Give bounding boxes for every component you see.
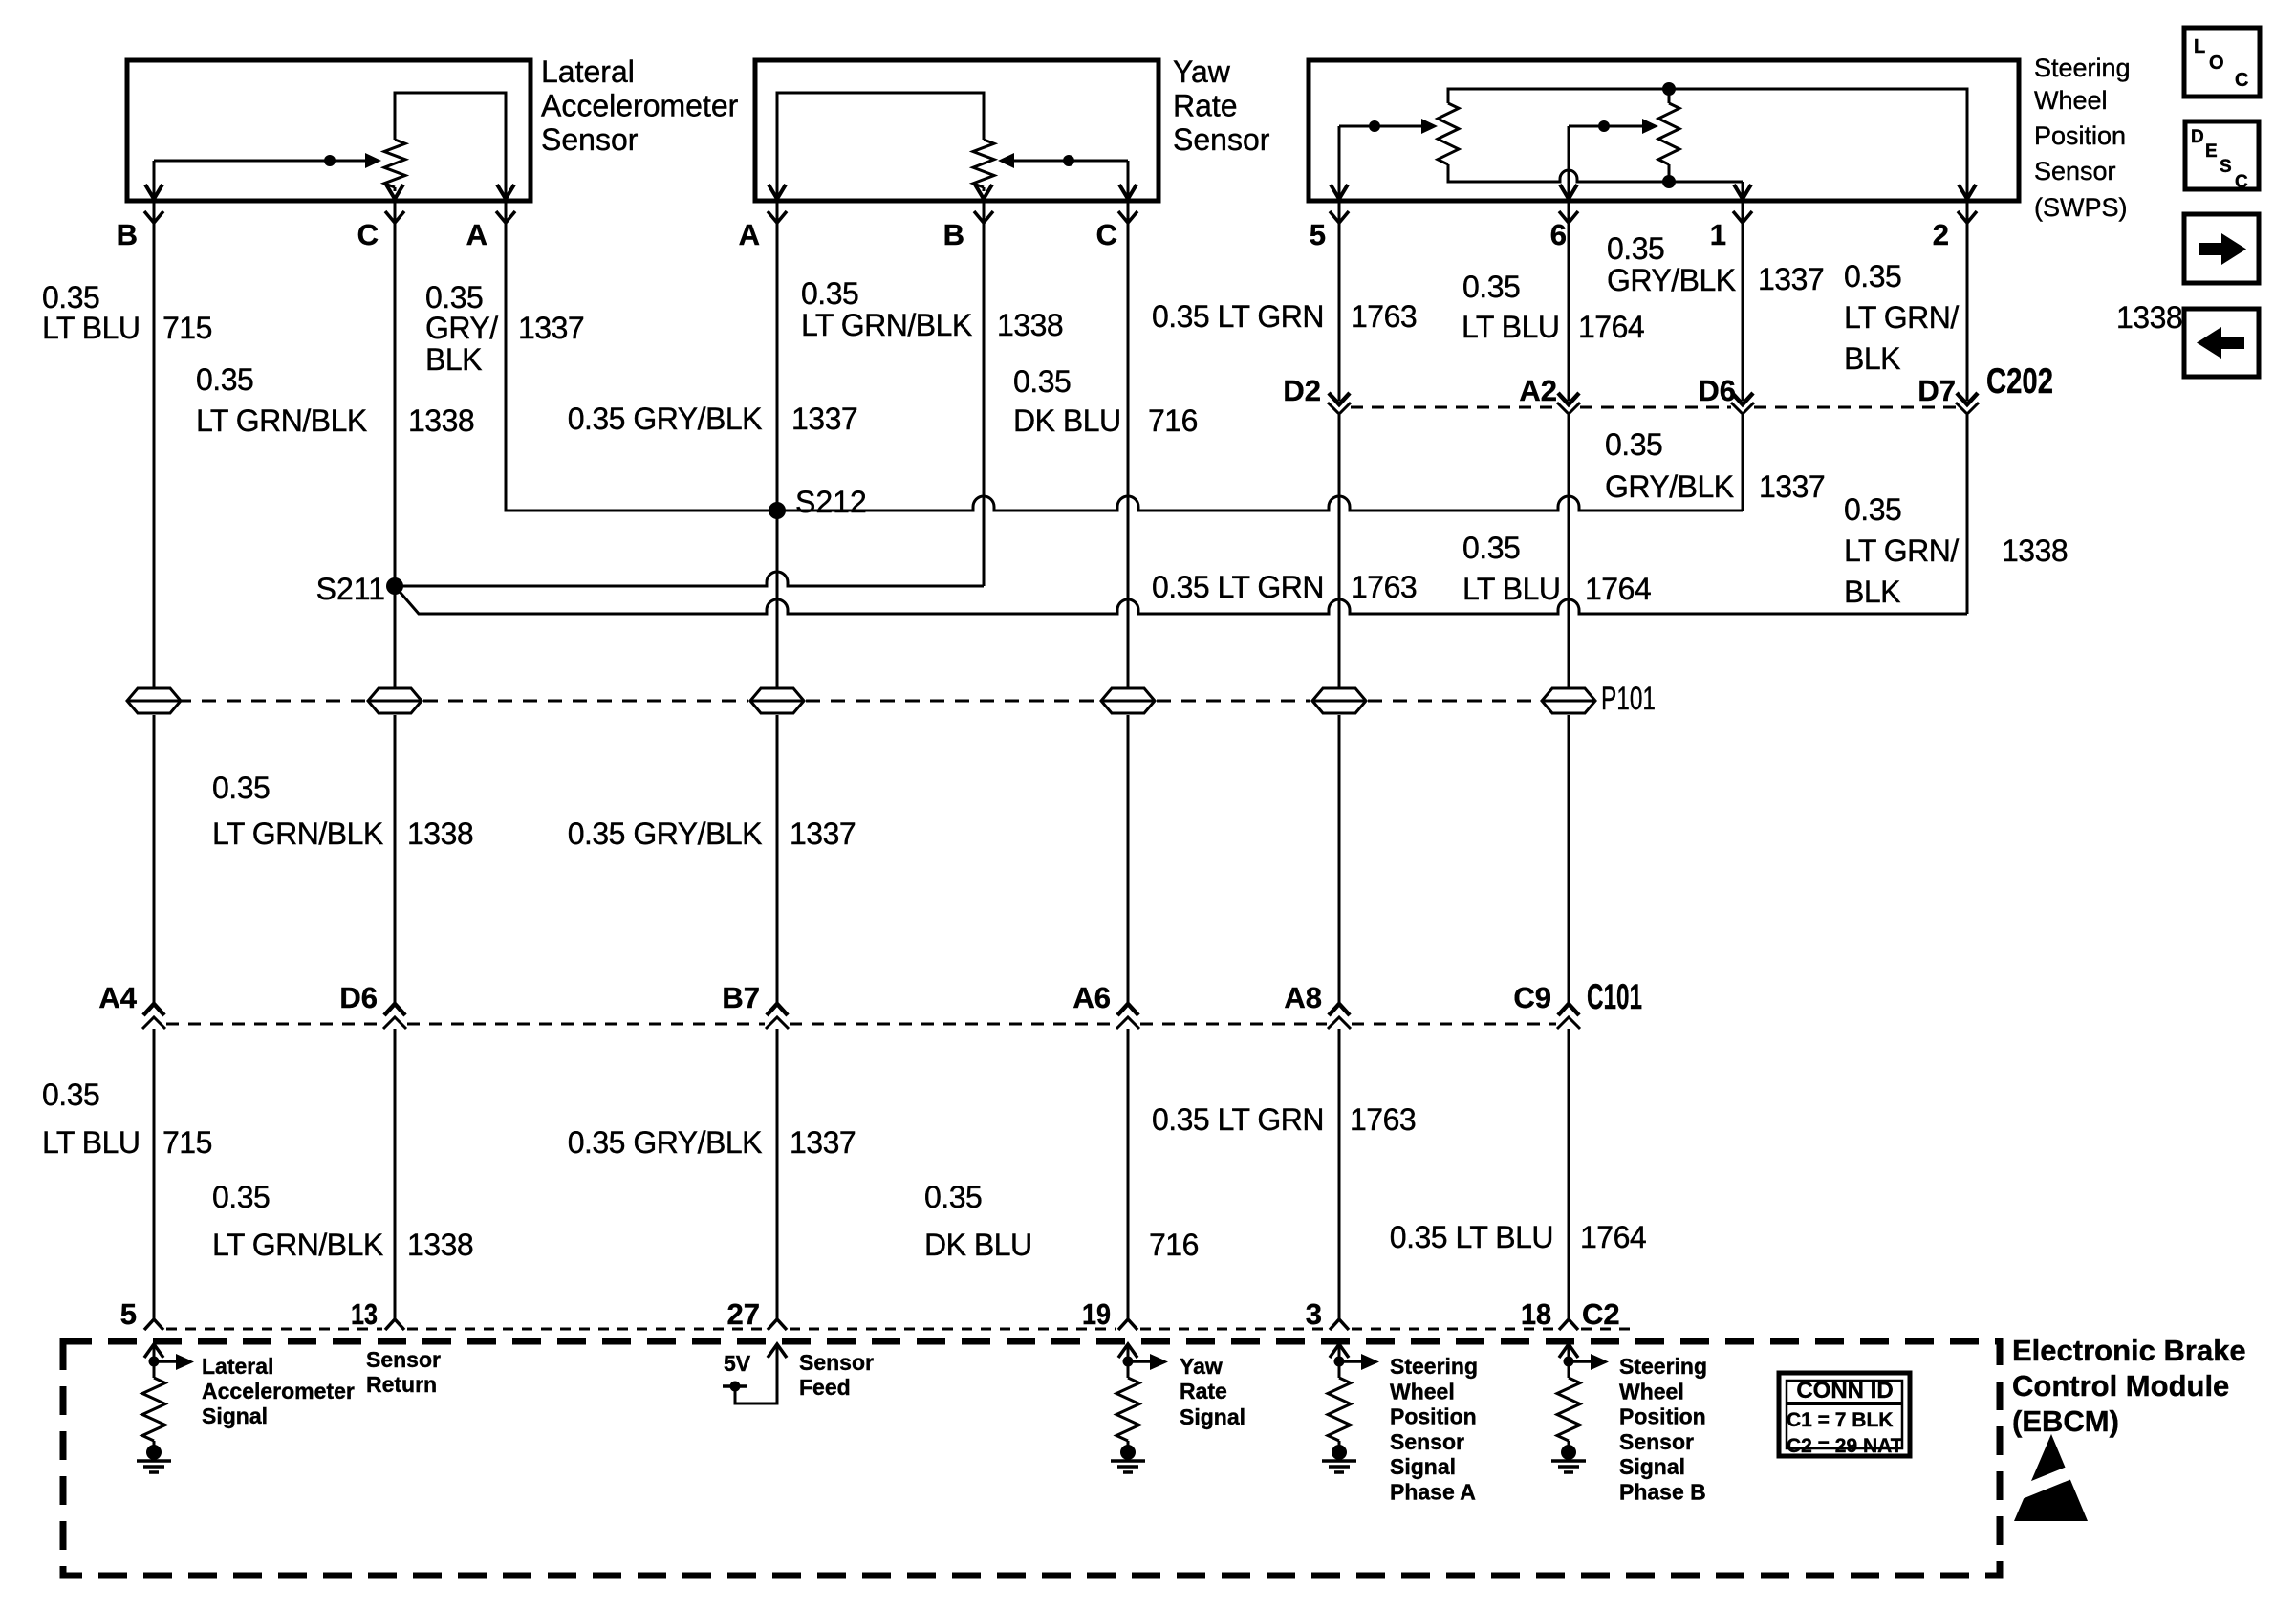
pin arrow 5 (SWPS) [1331,185,1348,199]
svg-text:Steering: Steering [1390,1354,1478,1379]
svg-text:Sensor: Sensor [1173,122,1270,157]
svg-text:LT GRN/BLK: LT GRN/BLK [801,308,972,342]
pin connector chevron A (yaw) [768,211,787,223]
svg-text:0.35: 0.35 [1607,231,1664,266]
wire label 0.35 GRY/BLK @(797,1206) [568,1125,762,1160]
svg-text:5: 5 [120,1297,137,1331]
wire label 0.35 GRY/BLK @(797,883) [568,816,762,851]
svg-text:D7: D7 [1917,374,1956,407]
svg-text:S: S [2220,157,2232,177]
EBCM input circuit: SWPS signal phase B (arrow, resistor, ground) [1551,1344,1609,1472]
label A4 (C101) [98,981,137,1014]
resistor (lateral accelerometer potentiometer element) [384,140,405,191]
svg-text:Electronic Brake: Electronic Brake [2012,1334,2246,1367]
wire label 1764 @(1653,1305) [1580,1220,1646,1254]
svg-text:1337: 1337 [518,311,584,345]
EBCM label: Lateral Accelerometer Signal [202,1354,355,1428]
EBCM label: Sensor Feed [799,1350,874,1400]
svg-text:Control Module: Control Module [2012,1369,2229,1403]
wire label 1338 @(427,451) [408,403,474,438]
wire label 1338 @(426,883) [407,816,473,851]
svg-text:BLK: BLK [425,342,482,377]
pin connector chevron C (lateral) [385,211,404,223]
P101 dashed line [127,700,1540,703]
EBCM dashed box (Electronic Brake Control Module) [63,1341,2000,1576]
svg-text:LT BLU: LT BLU [42,1125,141,1160]
label D6 (C101) [339,981,378,1014]
svg-text:0.35 GRY/BLK: 0.35 GRY/BLK [568,816,762,851]
svg-text:Phase A: Phase A [1390,1480,1476,1505]
wire (SWPS wiper B to pin 6) [1568,126,1570,196]
svg-text:S211: S211 [316,572,385,606]
grommet P101 on wire 1763 [1312,688,1366,713]
pin label 6 (SWPS) [1550,218,1567,251]
svg-text:L: L [2194,36,2205,57]
svg-text:1: 1 [1710,218,1726,251]
svg-text:DK BLU: DK BLU [1013,403,1121,438]
legend box left-arrow [2184,309,2259,377]
wire label LT GRN/ @(1929,343) [1844,300,1959,335]
wire label 1337 @(828,449) [791,402,857,436]
pin arrow A (yaw) [769,185,786,199]
svg-text:GRY/BLK: GRY/BLK [1607,263,1736,297]
svg-text:Sensor: Sensor [366,1347,441,1372]
svg-text:0.35 LT GRN: 0.35 LT GRN [1152,299,1324,334]
svg-text:A6: A6 [1072,981,1111,1014]
wire label 715 @(170,354) [162,311,212,345]
svg-text:LT BLU: LT BLU [42,311,141,345]
pin arrow 6 (SWPS) [1560,185,1577,199]
pin arrow C (lateral) [386,185,403,199]
junction dot on yaw wiper [1063,155,1074,166]
EBCM pin 13 chevron [385,1319,404,1330]
wire label BLK @(445,387) [425,342,482,377]
wire label BLK @(1929,630) [1844,575,1900,609]
wire label 0.35 @(1530,584) [1462,531,1520,565]
svg-text:716: 716 [1148,403,1198,438]
label A6 (C101) [1072,981,1111,1014]
wire label LT BLU @(44,1206) [42,1125,141,1160]
resistor (yaw rate sensor potentiometer element) [973,140,994,191]
wire label LT GRN/ @(1929,587) [1844,533,1959,568]
steering wheel position sensor box [1309,60,2019,201]
label: Yaw Rate Sensor [1173,54,1270,157]
svg-text:Wheel: Wheel [2034,86,2108,115]
svg-text:0.35 LT GRN: 0.35 LT GRN [1152,570,1324,604]
svg-text:Accelerometer: Accelerometer [541,89,739,123]
pin label C (yaw) [1096,218,1117,251]
svg-text:E: E [2205,141,2218,162]
svg-text:Feed: Feed [799,1375,851,1400]
wire label 1337 @(1839,303) [1758,262,1824,296]
lateral accelerometer sensor box [127,60,531,201]
EBCM label: Yaw Rate Signal [1180,1354,1245,1429]
svg-text:1338: 1338 [407,816,473,851]
pin label A (yaw) [739,218,760,251]
wire label 0.35 @(205,408) [196,362,253,397]
svg-text:715: 715 [162,311,212,345]
svg-text:1764: 1764 [1585,572,1651,606]
wire label 0.35 LT GRN @(1385,625) [1152,570,1324,604]
wire label 0.35 LT BLU @(1625,1305) [1390,1220,1553,1254]
svg-text:Signal: Signal [202,1403,268,1428]
svg-text:1337: 1337 [790,1125,856,1160]
wire label 1338 @(1043,351) [997,308,1063,342]
label P101 [1601,681,1656,717]
legend box DESC [2185,121,2259,192]
grommet P101 on wire 1337 [750,688,804,713]
svg-text:1337: 1337 [791,402,857,436]
yaw rate sensor box [755,60,1159,201]
junction dot on SWPS wiper A [1369,120,1380,132]
svg-text:O: O [2209,53,2224,74]
connector C101 dashed line [166,1023,1556,1026]
pin label B (lateral) [117,218,138,251]
grommet P101 on wire 715 [127,688,181,713]
EBCM connector label C2 [1582,1297,1620,1331]
svg-text:B7: B7 [722,981,760,1014]
EBCM input circuit: SWPS signal phase A (arrow, resistor, ground) [1322,1344,1379,1472]
label B7 (C101) [722,981,760,1014]
svg-text:D: D [2191,127,2204,147]
wire 1337 GRY/BLK (SWPS 1 to splice S212) [1742,203,1744,511]
label: Lateral Accelerometer Sensor [541,54,739,157]
CONN ID table text [1787,1378,1903,1457]
pin label 5 (SWPS) [1310,218,1326,251]
wire label 1763 @(1413,625) [1351,570,1417,604]
wire label LT GRN/BLK @(222,1313) [212,1228,383,1262]
svg-text:A4: A4 [98,981,137,1014]
svg-text:LT GRN/: LT GRN/ [1844,533,1959,568]
svg-text:BLK: BLK [1844,575,1900,609]
svg-text:Steering: Steering [2034,54,2131,82]
EBCM label: Steering Wheel Position Sensor Signal Phase B [1619,1354,1707,1505]
pin connector chevron B (yaw) [974,211,993,223]
svg-text:LT BLU: LT BLU [1462,572,1561,606]
svg-text:B: B [117,218,138,251]
svg-text:0.35: 0.35 [1605,427,1662,462]
svg-text:GRY/: GRY/ [425,311,498,345]
svg-text:CONN ID: CONN ID [1796,1378,1893,1403]
svg-text:Yaw: Yaw [1180,1354,1223,1379]
svg-text:0.35: 0.35 [1844,492,1901,527]
svg-text:B: B [943,218,964,251]
pin connector chevron A (lateral) [496,211,515,223]
svg-text:P101: P101 [1601,681,1656,717]
svg-text:Yaw: Yaw [1173,54,1231,89]
splice S211 branch to yaw pin B (hop over yaw A) [395,572,984,586]
EBCM input circuit: lateral accelerometer signal (arrow, resistor, ground) [137,1344,194,1472]
svg-text:2: 2 [1933,218,1949,251]
wire label 1338 @(426,1313) [407,1228,473,1262]
EBCM pin 19 chevron [1118,1319,1137,1330]
wire label LT GRN/BLK @(222,883) [212,816,383,851]
EBCM pin label 3 [1306,1297,1322,1331]
svg-text:Rate: Rate [1180,1379,1227,1403]
wire label GRY/BLK @(1679,520) [1605,469,1734,504]
label C202 [1986,361,2053,401]
wire label 1337 @(826,883) [790,816,856,851]
svg-text:1338: 1338 [2116,300,2182,335]
svg-text:C2 = 29 NAT: C2 = 29 NAT [1787,1435,1903,1457]
connector C101 terminal A4 (chevrons) [142,1004,165,1029]
svg-text:0.35: 0.35 [1013,364,1071,399]
label D6 (C202) [1698,374,1736,407]
svg-text:LT GRN/BLK: LT GRN/BLK [212,816,383,851]
svg-text:Position: Position [1390,1404,1477,1429]
svg-text:Sensor: Sensor [1390,1429,1464,1454]
svg-text:0.35: 0.35 [924,1180,982,1214]
label D7 (C202) [1917,374,1956,407]
wire label 1338 @(2214,343) [2116,300,2182,335]
wire label 0.35 @(445,322) [425,280,483,315]
svg-text:0.35: 0.35 [212,771,270,805]
pin connector chevron 2 (SWPS) [1958,211,1977,223]
label: Steering Wheel Position Sensor (SWPS) [2034,54,2131,222]
wire label LT BLU @(1530,627) [1462,572,1561,606]
svg-text:13: 13 [351,1297,378,1331]
svg-text:A: A [739,218,760,251]
grommet P101 on wire 1338 [368,688,422,713]
svg-text:Signal: Signal [1619,1454,1685,1479]
svg-text:(EBCM): (EBCM) [2012,1404,2119,1438]
wire label 1337 @(826,1206) [790,1125,856,1160]
svg-text:715: 715 [162,1125,212,1160]
wire label 0.35 @(44,1156) [42,1077,99,1112]
svg-text:Sensor: Sensor [799,1350,874,1375]
svg-text:5V: 5V [724,1351,751,1376]
wire label 0.35 @(1530,311) [1462,270,1520,304]
wire label 716 @(1202,1313) [1149,1228,1199,1262]
CONN ID table box [1779,1373,1910,1456]
svg-text:C: C [2235,70,2248,91]
wire label 715 @(170,1206) [162,1125,212,1160]
pin arrow B (lateral, into box bottom) [145,185,162,199]
wire (pin 1 drop) [1742,182,1744,196]
wire label 0.35 @(1929,544) [1844,492,1901,527]
resistor R-A (SWPS potentiometer phase A) [1438,103,1459,164]
wire (lateral A down and right to splice S212) [506,203,769,511]
legend box right-arrow [2184,214,2259,283]
wire label 1337 @(1840,520) [1759,469,1825,504]
wire label DK BLU @(1060,451) [1013,403,1121,438]
connector C202 terminal D6 (arrow + chevron) [1731,393,1754,414]
svg-text:Phase B: Phase B [1619,1480,1706,1505]
wire 1763 LT GRN (SWPS 5 to EBCM 3) [1338,203,1341,1319]
wire (SWPS bottom bus: R-A bottom to pin 1 drop, hop over pin-6 wire) [1448,164,1743,182]
wire label 0.35 @(222,835) [212,771,270,805]
wire label 1763 @(1413,342) [1351,299,1417,334]
junction dot on SWPS wiper B [1598,120,1610,132]
EBCM pin label 13 [351,1297,378,1331]
junction dot on lateral wiper [324,155,336,166]
wire label 1763 @(1412,1182) [1350,1102,1416,1137]
wire label 0.35 @(44,322) [42,280,99,315]
wire (lateral accel resistor top to pin A) [395,93,506,196]
svg-text:716: 716 [1149,1228,1199,1262]
svg-text:0.35: 0.35 [1462,270,1520,304]
label A2 (C202) [1519,374,1557,407]
svg-text:Position: Position [2034,121,2126,150]
wire 1338 LT GRN/BLK (SWPS 2 to splice S211) [1966,203,1969,614]
svg-text:1763: 1763 [1350,1102,1416,1137]
wire label LT BLU @(44,354) [42,311,141,345]
svg-text:0.35: 0.35 [196,362,253,397]
svg-text:0.35 GRY/BLK: 0.35 GRY/BLK [568,402,762,436]
wire label DK BLU @(967,1313) [924,1228,1032,1262]
svg-text:1337: 1337 [1758,262,1824,296]
EBCM connector thin dashed line [166,1328,1636,1331]
pin label A (lateral) [466,218,487,251]
svg-text:Sensor: Sensor [2034,157,2116,185]
svg-text:0.35: 0.35 [1844,259,1901,294]
svg-text:0.35: 0.35 [212,1180,270,1214]
wire (yaw resistor top to pin A) [777,93,984,196]
svg-text:19: 19 [1082,1297,1111,1331]
connector C202 terminal A2 (arrow + chevron) [1557,393,1580,414]
wire label GRY/ @(445,354) [425,311,498,345]
svg-text:0.35: 0.35 [1462,531,1520,565]
label C9 (C101) [1513,981,1551,1014]
svg-text:Return: Return [366,1372,437,1397]
wiper arrow (SWPS phase B) [1569,119,1658,134]
connector C202 dashed line [1351,406,1956,409]
connector C101 terminal C9 (chevrons) [1557,1004,1580,1029]
wire label 1338 @(2094,587) [2002,533,2068,568]
EBCM label: Sensor Return [366,1347,441,1397]
svg-text:C: C [1096,218,1117,251]
svg-text:1338: 1338 [408,403,474,438]
svg-text:0.35 GRY/BLK: 0.35 GRY/BLK [568,1125,762,1160]
connector C101 terminal A6 (chevrons) [1116,1004,1139,1029]
svg-text:Sensor: Sensor [541,122,639,157]
wire (R-B bottom stub) [1668,164,1671,182]
svg-text:Lateral: Lateral [202,1354,273,1379]
svg-text:1763: 1763 [1351,299,1417,334]
svg-text:C1 = 7 BLK: C1 = 7 BLK [1787,1409,1893,1431]
wiper arrow (yaw rate sensor) [998,153,1128,168]
wire label 0.35 @(1929,300) [1844,259,1901,294]
svg-text:C9: C9 [1513,981,1551,1014]
svg-text:D6: D6 [339,981,378,1014]
EBCM label: 5V [724,1351,751,1376]
wire label 0.35 @(1679,476) [1605,427,1662,462]
EBCM pin label 19 [1082,1297,1111,1331]
svg-text:C101: C101 [1587,977,1642,1016]
svg-text:A8: A8 [1284,981,1322,1014]
connector C101 terminal D6 (chevrons) [383,1004,406,1029]
svg-text:D2: D2 [1283,374,1321,407]
svg-text:0.35 LT BLU: 0.35 LT BLU [1390,1220,1553,1254]
wire label 0.35 @(1681,271) [1607,231,1664,266]
splice S211 branch to SWPS pin-2 wire (hops over yaw A, yaw C, SWPS 5, SWPS 6) [395,586,1967,614]
junction dot (R-B top on top bus) [1662,82,1676,96]
svg-text:0.35 LT GRN: 0.35 LT GRN [1152,1102,1324,1137]
EBCM pin 27 chevron [768,1319,787,1330]
label S212 [795,485,867,519]
svg-text:3: 3 [1306,1297,1322,1331]
EBCM pin 18 chevron [1559,1319,1578,1330]
wire 1337 GRY/BLK (yaw A to EBCM 27) [776,203,779,1319]
svg-text:Steering: Steering [1619,1354,1707,1379]
wire label LT GRN/BLK @(838,351) [801,308,972,342]
svg-text:Signal: Signal [1390,1454,1456,1479]
label S211 [316,572,385,606]
connector C101 terminal B7 (chevrons) [766,1004,789,1029]
label A8 (C101) [1284,981,1322,1014]
grommet P101 on wire 1764 [1542,688,1595,713]
EBCM pin label 18 [1521,1297,1551,1331]
wire label 0.35 @(1060,410) [1013,364,1071,399]
EBCM sensor feed circuit (up arrow + 5V tap) [723,1344,787,1403]
wire label GRY/BLK @(1681,304) [1607,263,1736,297]
wire label 716 @(1201,451) [1148,403,1198,438]
wire label 0.35 GRY/BLK @(797,449) [568,402,762,436]
svg-text:S212: S212 [795,485,867,519]
pin connector chevron 5 (SWPS) [1330,211,1349,223]
svg-text:DK BLU: DK BLU [924,1228,1032,1262]
pin arrow 1 (SWPS) [1734,185,1751,199]
svg-text:27: 27 [727,1297,760,1331]
svg-text:(SWPS): (SWPS) [2034,193,2128,222]
legend box LOC [2184,28,2260,97]
svg-text:5: 5 [1310,218,1326,251]
wire label 1764 @(1658,627) [1585,572,1651,606]
grommet P101 on wire 716 [1101,688,1155,713]
svg-text:Position: Position [1619,1404,1706,1429]
svg-text:1337: 1337 [1759,469,1825,504]
wire 1764 LT BLU (SWPS 6 to EBCM 18) [1568,203,1570,1319]
pin connector chevron C (yaw) [1118,211,1137,223]
label: Electronic Brake Control Module (EBCM) [2012,1334,2246,1438]
label D2 (C202) [1283,374,1321,407]
pin connector chevron 1 (SWPS) [1733,211,1752,223]
svg-text:GRY/BLK: GRY/BLK [1605,469,1734,504]
wire label LT BLU @(1529,353) [1462,310,1560,344]
svg-text:D6: D6 [1698,374,1736,407]
pin connector chevron 6 (SWPS) [1559,211,1578,223]
ESD sensitivity symbol [2005,1434,2095,1521]
svg-text:0.35: 0.35 [42,280,99,315]
wire 1338 LT GRN/BLK (lateral C to EBCM 13) [394,203,397,1319]
svg-text:Sensor: Sensor [1619,1429,1694,1454]
wire 716 DK BLU (yaw C to EBCM 19) [1127,203,1130,1319]
svg-text:0.35: 0.35 [801,276,858,311]
splice dot S211 [386,577,403,595]
svg-text:1764: 1764 [1578,310,1644,344]
wire label 0.35 @(222,1263) [212,1180,270,1214]
wiper arrow (SWPS phase A) [1339,119,1438,134]
svg-text:LT GRN/BLK: LT GRN/BLK [212,1228,383,1262]
svg-text:1764: 1764 [1580,1220,1646,1254]
wire label LT GRN/BLK @(205,451) [196,403,367,438]
splice S212 bus (S212 to SWPS pin-1 wire, hops over yaw B, yaw C, SWPS 5, SWPS 6) [777,496,1743,511]
wire label BLK @(1929,386) [1844,341,1900,376]
pin label C (lateral) [357,218,379,251]
pin arrow A (lateral) [497,185,514,199]
connector C202 terminal D7 (arrow + chevron) [1956,393,1979,414]
svg-text:C: C [357,218,379,251]
wiper arrow (lateral accelerometer) [154,153,381,168]
wire label 0.35 LT GRN @(1385,1182) [1152,1102,1324,1137]
splice dot S212 [769,502,786,519]
EBCM pin 5 chevron [144,1319,163,1330]
svg-text:1338: 1338 [407,1228,473,1262]
EBCM pin label 5 [120,1297,137,1331]
EBCM pin 3 chevron [1330,1319,1349,1330]
svg-text:Wheel: Wheel [1619,1379,1684,1403]
svg-text:0.35: 0.35 [425,280,483,315]
